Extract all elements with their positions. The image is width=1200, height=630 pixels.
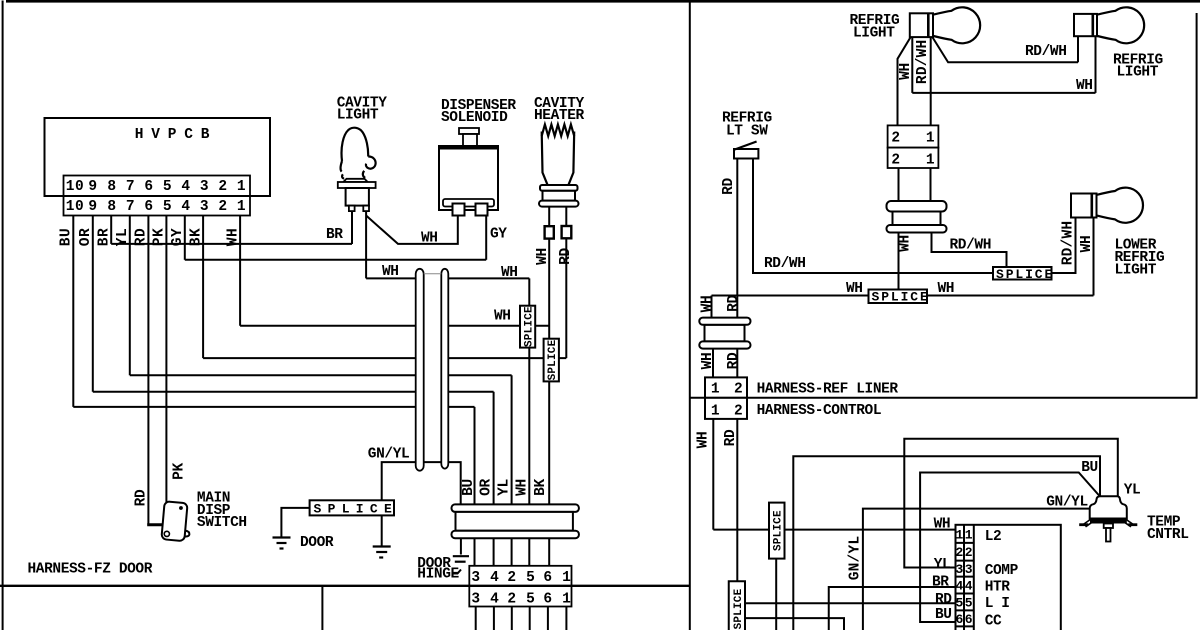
wire WH up to light2 socket bbox=[1095, 36, 1097, 93]
svg-text:SPLICE: SPLICE bbox=[547, 339, 559, 380]
wire BU horizontal to door hinge bbox=[73, 406, 415, 408]
cavity light socket bbox=[346, 188, 369, 206]
svg-text:2: 2 bbox=[965, 545, 973, 560]
svg-text:SPLICE: SPLICE bbox=[996, 267, 1054, 282]
door grommet bottom flange bbox=[452, 531, 579, 539]
svg-text:3: 3 bbox=[471, 592, 480, 608]
door connector numbers row1 bbox=[471, 570, 571, 586]
svg-text:5: 5 bbox=[163, 179, 172, 195]
svg-text:WH: WH bbox=[898, 235, 914, 252]
wire BR pin4 bbox=[829, 587, 956, 630]
refrig light 2 socket bbox=[1074, 14, 1097, 36]
svg-text:5: 5 bbox=[956, 596, 964, 611]
door grommet top flange bbox=[452, 504, 579, 512]
svg-text:RD/WH: RD/WH bbox=[915, 40, 931, 85]
svg-text:5: 5 bbox=[526, 592, 535, 608]
wire BU pin10 vertical bbox=[72, 216, 74, 407]
svg-text:1: 1 bbox=[711, 382, 720, 398]
svg-text:3: 3 bbox=[200, 199, 209, 215]
svg-text:8: 8 bbox=[107, 199, 116, 215]
svg-text:HTR: HTR bbox=[985, 580, 1011, 596]
svg-text:HINGE: HINGE bbox=[417, 567, 459, 583]
wire RD/WH refrig lt sw to splice bbox=[753, 159, 993, 274]
wire WH to relay connector pin1 bbox=[713, 529, 956, 531]
right barrel connector bbox=[893, 212, 941, 226]
svg-text:WH: WH bbox=[898, 63, 914, 80]
svg-text:WH: WH bbox=[700, 353, 716, 370]
svg-text:GN/YL: GN/YL bbox=[848, 536, 864, 581]
svg-text:SPLICE: SPLICE bbox=[733, 588, 745, 629]
svg-text:SWITCH: SWITCH bbox=[197, 515, 247, 531]
wire OR horizontal bbox=[93, 391, 416, 393]
wires below left barrel to harness connector bbox=[712, 349, 714, 378]
wire WH pin1 vertical bbox=[239, 216, 241, 326]
wire WH down through splice to door connector pin5 bbox=[528, 278, 530, 565]
wire BK pin3 vertical bbox=[202, 216, 204, 359]
svg-text:WH: WH bbox=[225, 228, 241, 246]
svg-text:RD/WH: RD/WH bbox=[764, 256, 806, 272]
wire WH diagonal from refrig light 1 socket bbox=[898, 37, 911, 125]
wire line B corner to temp cntrl bbox=[793, 456, 1100, 630]
wire RD splice to pin5 bbox=[745, 602, 956, 604]
svg-text:3: 3 bbox=[471, 570, 480, 586]
svg-text:WH: WH bbox=[382, 264, 399, 280]
harness connector numbers bbox=[711, 382, 743, 420]
wire WH horizontal through lower splice bbox=[712, 295, 869, 297]
svg-text:LT SW: LT SW bbox=[726, 124, 768, 140]
door splice box (horizontal) bbox=[310, 500, 394, 515]
svg-text:RD: RD bbox=[935, 592, 952, 608]
HVPCB connector 2-row header bbox=[64, 176, 251, 216]
wire GN/YL up to temp cntrl bbox=[863, 509, 1090, 630]
relay connector pin numbers bbox=[956, 528, 974, 628]
svg-text:6: 6 bbox=[144, 199, 153, 215]
svg-text:5: 5 bbox=[965, 596, 973, 611]
svg-text:PK: PK bbox=[172, 463, 188, 480]
wire cavity light right terminal lead down bbox=[365, 211, 367, 278]
left barrel connector bbox=[705, 325, 745, 342]
wire BK horizontal to cavity heater RD lead bbox=[203, 357, 416, 359]
temp cntrl base bar bbox=[1090, 519, 1127, 524]
svg-text:RD: RD bbox=[721, 178, 737, 195]
svg-text:RD: RD bbox=[134, 489, 150, 506]
wire GY horizontal to dispenser solenoid bbox=[185, 259, 486, 261]
svg-text:RD/WH: RD/WH bbox=[1061, 221, 1077, 266]
svg-text:6: 6 bbox=[956, 612, 964, 627]
temp cntrl legs bbox=[1083, 519, 1091, 525]
svg-text:BU: BU bbox=[1081, 460, 1098, 476]
svg-text:BR: BR bbox=[326, 227, 343, 243]
svg-text:BK: BK bbox=[533, 479, 549, 496]
svg-text:RD: RD bbox=[723, 429, 739, 446]
svg-text:1: 1 bbox=[956, 528, 964, 543]
splice box upper right (RD/WH) bbox=[993, 267, 1052, 280]
svg-text:DOOR: DOOR bbox=[300, 535, 334, 551]
refrig light 2 bulb glass bbox=[1098, 7, 1145, 43]
door hinge tube right bbox=[441, 269, 448, 469]
svg-text:BR: BR bbox=[932, 575, 949, 591]
lamp connector box 2-1 row2 bbox=[888, 148, 939, 168]
svg-text:1: 1 bbox=[711, 404, 720, 420]
left panel bottom divider (HARNESS-FZ DOOR) bbox=[0, 585, 691, 587]
svg-text:4: 4 bbox=[956, 579, 964, 594]
wire below door splice to ground bbox=[381, 515, 383, 546]
svg-text:OR: OR bbox=[479, 479, 495, 496]
cavity light base plate bbox=[343, 179, 367, 182]
wire door connector pin1 below bbox=[565, 607, 567, 630]
svg-text:BK: BK bbox=[188, 228, 204, 246]
wire RD/WH diagonal to refrig light 2 bbox=[932, 37, 1078, 62]
svg-text:9: 9 bbox=[88, 199, 97, 215]
svg-text:LIGHT: LIGHT bbox=[1115, 263, 1157, 279]
svg-text:WH: WH bbox=[938, 281, 955, 297]
vertical wire below left divider bbox=[321, 586, 323, 630]
page left border bbox=[2, 1, 4, 630]
splice A box on WH line (vertical) bbox=[769, 503, 785, 559]
temp cntrl stem bbox=[1104, 524, 1113, 529]
svg-text:GN/YL: GN/YL bbox=[368, 447, 410, 463]
tube top cross line bbox=[424, 273, 442, 275]
wire BR pin8 vertical bbox=[110, 216, 112, 244]
svg-text:5: 5 bbox=[163, 199, 172, 215]
wire WH from socket bottom to horizontal bbox=[911, 37, 913, 93]
svg-text:OR: OR bbox=[78, 228, 94, 246]
svg-text:1: 1 bbox=[237, 179, 246, 195]
svg-text:LIGHT: LIGHT bbox=[853, 25, 895, 41]
wire RD elbow into switch bbox=[147, 523, 163, 526]
cavity heater body bbox=[542, 132, 548, 185]
svg-text:WH: WH bbox=[494, 309, 511, 325]
svg-text:2: 2 bbox=[734, 404, 743, 420]
wire WH cavity light to door hinge tube bbox=[366, 277, 416, 279]
wire RD harness-control down to splice bbox=[736, 419, 738, 581]
lower refrig light socket bbox=[1071, 194, 1097, 218]
svg-text:BU: BU bbox=[59, 228, 75, 246]
door grommet body bbox=[456, 512, 573, 531]
relay connector big box bbox=[956, 525, 1061, 630]
cavity heater RD inline connector bbox=[562, 226, 572, 238]
harness-control connector box bbox=[705, 398, 747, 419]
wire from splice B lower branch bbox=[745, 618, 844, 630]
wire BU temp cntrl to pin6 bbox=[920, 473, 1100, 623]
svg-text:HARNESS-REF LINER: HARNESS-REF LINER bbox=[757, 382, 899, 398]
svg-text:WH: WH bbox=[1079, 236, 1095, 253]
svg-text:HEATER: HEATER bbox=[534, 108, 585, 124]
svg-text:RD: RD bbox=[558, 248, 574, 265]
svg-text:GY: GY bbox=[170, 228, 186, 246]
svg-text:SPLICE: SPLICE bbox=[872, 290, 930, 305]
svg-text:2: 2 bbox=[734, 382, 743, 398]
wire BR up to cavity light left terminal bbox=[351, 211, 353, 244]
svg-text:WH: WH bbox=[1076, 78, 1093, 94]
cavity light terminals bbox=[349, 206, 355, 212]
svg-text:L2: L2 bbox=[985, 529, 1002, 545]
svg-text:5: 5 bbox=[526, 570, 535, 586]
svg-text:6: 6 bbox=[965, 612, 973, 627]
wires connector to barrel bbox=[898, 168, 900, 201]
svg-text:4: 4 bbox=[490, 592, 499, 608]
wire RD/WH socket to connector pin1 bbox=[930, 37, 932, 125]
lamp connector box 2-1 row1 bbox=[888, 125, 939, 147]
svg-text:4: 4 bbox=[181, 179, 190, 195]
svg-text:PK: PK bbox=[152, 228, 168, 246]
dispenser solenoid body bbox=[439, 146, 498, 210]
cavity heater WH inline connector bbox=[545, 226, 554, 238]
connector pin numbers row 1 bbox=[66, 179, 246, 195]
svg-text:RD: RD bbox=[726, 295, 742, 312]
wire WH horizontal to cavity heater WH lead bbox=[240, 325, 416, 327]
svg-text:BU: BU bbox=[935, 607, 952, 623]
cavity light bulb glass bbox=[342, 128, 369, 161]
dispenser solenoid bottom bar bbox=[443, 199, 494, 207]
wire YL pin7 vertical bbox=[129, 216, 131, 376]
svg-text:SPLICE: SPLICE bbox=[773, 510, 785, 551]
wire from splice A down bbox=[775, 559, 777, 630]
svg-text:4: 4 bbox=[490, 570, 499, 586]
svg-text:YL: YL bbox=[1124, 483, 1141, 499]
wire BU down to door connector pin3 bbox=[474, 407, 476, 566]
svg-text:3: 3 bbox=[200, 179, 209, 195]
svg-text:1: 1 bbox=[562, 592, 571, 608]
wire cavity heater RD lead down to BK junction bbox=[565, 207, 567, 227]
splice box on heater WH wire (vertical) bbox=[544, 339, 559, 382]
wire WH diagonal cavity light to solenoid bbox=[366, 216, 458, 244]
connector pin numbers row 2 bbox=[66, 199, 246, 215]
wire WH below barrel to splice bbox=[898, 233, 900, 296]
svg-text:WH: WH bbox=[934, 517, 951, 533]
svg-text:SOLENOID: SOLENOID bbox=[441, 110, 508, 126]
svg-text:2: 2 bbox=[891, 131, 900, 147]
door hinge ground dashes bbox=[453, 555, 469, 557]
wire YL horizontal bbox=[130, 374, 416, 376]
wire GN-YL from door splice up and over to grommet bbox=[382, 462, 461, 504]
svg-text:HVPCB: HVPCB bbox=[135, 127, 218, 143]
wire door splice to ground stub bbox=[281, 508, 309, 538]
refrig lt sw lever bbox=[735, 142, 757, 150]
door hinge connector box bbox=[469, 566, 571, 607]
svg-text:1: 1 bbox=[926, 153, 935, 169]
splice box lower (WH) bbox=[869, 290, 928, 304]
svg-text:2: 2 bbox=[218, 199, 227, 215]
svg-text:HARNESS-CONTROL: HARNESS-CONTROL bbox=[757, 403, 882, 419]
svg-text:10: 10 bbox=[66, 179, 84, 195]
center panel divider bbox=[689, 2, 691, 630]
wire RD/WH below barrel to splice bbox=[932, 233, 1007, 268]
svg-text:YL: YL bbox=[497, 479, 513, 496]
cavity heater connector bbox=[540, 185, 578, 191]
dispenser solenoid terminals bbox=[453, 204, 465, 216]
HVPCB board box bbox=[45, 118, 271, 196]
cavity heater element zigzag bbox=[542, 125, 575, 137]
temp cntrl body bbox=[1090, 496, 1127, 518]
door connector numbers row2 bbox=[471, 592, 571, 608]
svg-text:COMP: COMP bbox=[985, 563, 1019, 579]
wire BR horizontal to cavity light bbox=[111, 243, 352, 245]
svg-text:GY: GY bbox=[490, 227, 507, 243]
svg-text:3: 3 bbox=[956, 562, 964, 577]
wire GN-YL through grommet to door hinge ground bbox=[460, 504, 462, 554]
lower refrig light bulb glass bbox=[1097, 188, 1143, 223]
wire OR pin9 vertical bbox=[92, 216, 94, 392]
wire YL down to door connector pin2 bbox=[511, 375, 513, 566]
wire WH down to left barrel bbox=[711, 296, 713, 318]
wire PK pin5 vertical to main disp switch top bbox=[165, 216, 167, 505]
svg-text:1: 1 bbox=[237, 199, 246, 215]
svg-text:RD: RD bbox=[726, 352, 742, 369]
svg-text:WH: WH bbox=[421, 231, 438, 247]
wire WH harness-control down bbox=[712, 419, 714, 530]
svg-text:8: 8 bbox=[107, 179, 116, 195]
dispenser solenoid cap bbox=[459, 128, 479, 134]
wire OR down to door connector pin4 bbox=[493, 392, 495, 566]
wire cavity heater WH lead down to door connector pin6 bbox=[548, 207, 550, 227]
refrig light 1 bulb glass bbox=[934, 7, 981, 43]
wire RD pin6 vertical to main disp switch bbox=[147, 216, 149, 525]
svg-text:9: 9 bbox=[88, 179, 97, 195]
wire YL temp cntrl to pin3 bbox=[904, 439, 1118, 568]
svg-text:2: 2 bbox=[891, 153, 900, 169]
svg-text:RD/WH: RD/WH bbox=[950, 238, 992, 254]
relay connector pin boxes bbox=[963, 525, 965, 630]
wire WH horizontal to refrig light 2 bbox=[912, 92, 1095, 94]
wire RD/WH splice to lower refrig light bbox=[1052, 218, 1076, 274]
svg-text:YL: YL bbox=[934, 557, 951, 573]
svg-text:WH: WH bbox=[535, 248, 551, 265]
svg-text:GN/YL: GN/YL bbox=[1046, 495, 1088, 511]
svg-text:SPLICE: SPLICE bbox=[524, 306, 536, 347]
svg-text:1: 1 bbox=[965, 528, 973, 543]
wire GY pin4 vertical bbox=[184, 216, 186, 260]
right panel divider (REF LINER / CONTROL) bbox=[690, 397, 1198, 399]
svg-text:BU: BU bbox=[461, 479, 477, 496]
svg-text:WH: WH bbox=[501, 265, 518, 281]
door hinge pointer tick bbox=[452, 570, 462, 574]
svg-text:3: 3 bbox=[965, 562, 973, 577]
svg-text:2: 2 bbox=[956, 545, 964, 560]
refrig lt sw body bbox=[734, 149, 758, 159]
page top border bbox=[6, 0, 1200, 3]
wire color labels under HVPCB (rotated) bbox=[59, 228, 242, 246]
svg-text:LIGHT: LIGHT bbox=[1117, 65, 1159, 81]
wire GY up to solenoid right terminal bbox=[485, 216, 487, 260]
svg-text:SPLICE: SPLICE bbox=[314, 502, 399, 517]
lamp connector numbers bbox=[891, 131, 935, 169]
svg-text:4: 4 bbox=[181, 199, 190, 215]
svg-text:RD: RD bbox=[134, 228, 150, 246]
svg-text:2: 2 bbox=[507, 570, 516, 586]
svg-text:7: 7 bbox=[126, 199, 135, 215]
svg-text:HARNESS-FZ DOOR: HARNESS-FZ DOOR bbox=[28, 562, 153, 578]
svg-text:BR: BR bbox=[96, 228, 112, 246]
svg-text:6: 6 bbox=[543, 592, 552, 608]
svg-text:10: 10 bbox=[66, 199, 84, 215]
refrig light 1 socket bbox=[910, 13, 933, 37]
svg-text:CC: CC bbox=[985, 614, 1002, 630]
svg-text:RD/WH: RD/WH bbox=[1025, 44, 1067, 60]
svg-text:WH: WH bbox=[700, 296, 716, 313]
wire RD refrig lt sw down to left barrel bbox=[736, 159, 738, 318]
door ground symbol bbox=[273, 536, 291, 538]
wires below door connector bbox=[475, 607, 477, 630]
svg-text:4: 4 bbox=[965, 579, 973, 594]
wire WH lower refrig light down bbox=[1093, 218, 1095, 296]
svg-text:CNTRL: CNTRL bbox=[1147, 527, 1189, 543]
splice ground symbol bbox=[373, 545, 391, 547]
svg-text:1: 1 bbox=[562, 570, 571, 586]
svg-text:6: 6 bbox=[543, 570, 552, 586]
svg-text:WH: WH bbox=[696, 432, 712, 449]
splice B box on RD wire (vertical) bbox=[729, 581, 745, 630]
wire RD/WH up to light2 socket bbox=[1077, 36, 1079, 62]
svg-text:WH: WH bbox=[846, 281, 863, 297]
svg-text:WH: WH bbox=[515, 479, 531, 496]
door hinge tube left bbox=[416, 269, 424, 471]
wire cavity light left terminal lead bbox=[351, 211, 353, 244]
svg-text:6: 6 bbox=[144, 179, 153, 195]
svg-text:7: 7 bbox=[126, 179, 135, 195]
main disp switch body bbox=[161, 501, 192, 541]
svg-text:YL: YL bbox=[115, 228, 131, 246]
svg-text:LIGHT: LIGHT bbox=[337, 108, 379, 124]
splice box on WH wire (vertical) bbox=[520, 306, 535, 348]
page right border bbox=[1196, 13, 1198, 399]
svg-text:1: 1 bbox=[926, 131, 935, 147]
svg-text:2: 2 bbox=[218, 179, 227, 195]
harness-ref liner connector box bbox=[705, 377, 747, 397]
svg-text:2: 2 bbox=[507, 592, 516, 608]
svg-text:L I: L I bbox=[985, 596, 1010, 612]
